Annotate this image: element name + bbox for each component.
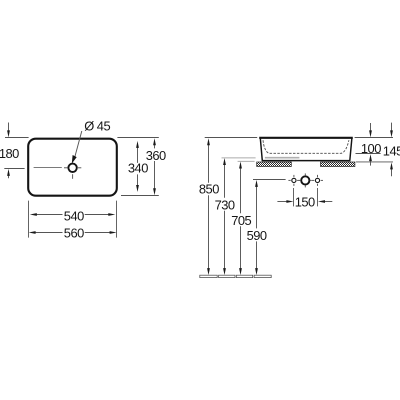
dim 150 left arrow (277, 201, 288, 203)
top-right extension line (rim level) (355, 137, 393, 139)
svg-text:145: 145 (383, 144, 400, 159)
svg-text:180: 180 (0, 146, 19, 161)
svg-text:360: 360 (146, 148, 166, 163)
basin profile sides and bottom (260, 138, 352, 161)
tap hole center circle (301, 176, 309, 184)
bottom extension lines of top view (28, 201, 30, 238)
dim 180 upper arrow (8, 123, 10, 133)
left tap hole mark (292, 178, 296, 182)
extension line 850 (rim level left) (205, 137, 258, 139)
dim 180 lower arrow (8, 175, 10, 179)
dim 560 line (34, 232, 112, 234)
svg-text:850: 850 (199, 182, 219, 197)
dim 180 top extension line (5, 137, 29, 139)
faucet hole crosshair ticks (64, 168, 81, 179)
dim 100 lower arrow (370, 159, 372, 165)
leader arrowhead (72, 155, 77, 164)
extension line 705 (gray) (238, 160, 255, 162)
dim 705 line (240, 167, 242, 270)
dim 730 line (224, 163, 226, 269)
dim 590 line (256, 185, 258, 269)
svg-text:730: 730 (215, 198, 235, 213)
svg-text:540: 540 (64, 209, 84, 224)
extension line basin bottom (145) (356, 161, 393, 163)
leader line to faucet hole (75, 131, 82, 158)
tap hole center crosshair (299, 173, 312, 187)
floor bar segment 4 (254, 275, 271, 277)
basin profile top edge (259, 137, 353, 139)
dim 340 line (137, 146, 139, 187)
svg-text:560: 560 (64, 226, 84, 241)
floor bar segment 2 (219, 275, 235, 277)
dim 145 upper arrow (391, 123, 393, 133)
dim 180 bottom extension line (4, 168, 24, 170)
svg-text:100: 100 (361, 141, 381, 156)
basin inner hidden edge (dashed) (263, 140, 349, 153)
basin outline (top view rounded rectangle) (28, 139, 117, 196)
dim 850 line (208, 143, 210, 269)
dim 145 lower arrow (391, 168, 393, 177)
right tap hole mark (315, 178, 319, 182)
extension line inner bottom (100) (356, 153, 381, 155)
dim 100 upper arrow (370, 123, 372, 132)
right extension lines of top view (117, 137, 158, 139)
dim 150 right arrow (323, 201, 332, 203)
svg-text:705: 705 (231, 213, 251, 228)
extension line 730 (gray) (222, 157, 256, 159)
faucet hole circle (68, 164, 76, 172)
dim 150 extension lines (293, 188, 295, 206)
dim 360 line (154, 143, 156, 190)
right mounting pad (hatched) (321, 162, 355, 167)
svg-text:Ø 45: Ø 45 (84, 118, 110, 133)
extension line 590 (253, 179, 286, 181)
left mounting pad (hatched) (257, 162, 292, 167)
interior gray line (265, 157, 300, 159)
svg-text:150: 150 (295, 195, 315, 210)
svg-text:590: 590 (247, 228, 267, 243)
floor bar segment 3 (236, 275, 252, 277)
dim 540 line (35, 214, 111, 216)
center line (34, 167, 62, 169)
floor bar segment 1 (200, 275, 217, 277)
